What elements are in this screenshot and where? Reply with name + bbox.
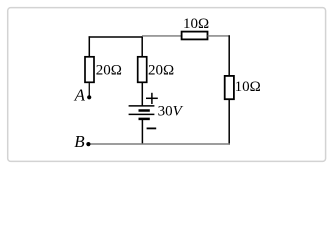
battery plate long (positive, second cell) <box>129 113 155 115</box>
wire bottom from node B to right branch <box>88 143 230 145</box>
wire top from middle branch to resistor R-top (grey) <box>142 35 182 37</box>
node B dot <box>86 142 90 146</box>
svg-text:B: B <box>74 132 85 151</box>
resistor 10Ω top (box) <box>182 32 208 40</box>
svg-text:30V: 30V <box>158 104 184 120</box>
wire battery to bottom wire <box>141 120 143 144</box>
wire middle resistor down to battery <box>141 83 143 106</box>
battery 30V plate long top (positive) <box>129 105 155 107</box>
svg-text:20Ω: 20Ω <box>96 63 122 79</box>
wire from top resistor to right branch corner (grey) <box>208 35 230 37</box>
battery plate short thick (negative, second cell) <box>139 118 150 121</box>
svg-text:10Ω: 10Ω <box>183 16 209 32</box>
wire left branch top (corner down to resistor) <box>88 36 90 57</box>
battery + polarity sign <box>146 93 158 104</box>
svg-text:10Ω: 10Ω <box>235 79 261 95</box>
svg-text:A: A <box>74 85 86 104</box>
wire right branch top (corner down to resistor) <box>228 35 230 76</box>
battery − polarity sign <box>147 127 157 129</box>
resistor 10Ω right (box) <box>225 76 234 99</box>
svg-text:20Ω: 20Ω <box>148 63 174 79</box>
wire right resistor down to bottom wire <box>228 100 230 145</box>
resistor 20Ω middle (box) <box>138 57 147 83</box>
wire top segment from node-A branch to middle branch <box>89 36 143 38</box>
wire left resistor to node A <box>88 83 90 96</box>
wire middle branch top (corner down to resistor) <box>141 36 143 57</box>
node A dot <box>87 95 91 99</box>
battery plate short thick (negative) <box>139 109 150 112</box>
resistor 20Ω left (box) <box>85 57 94 83</box>
